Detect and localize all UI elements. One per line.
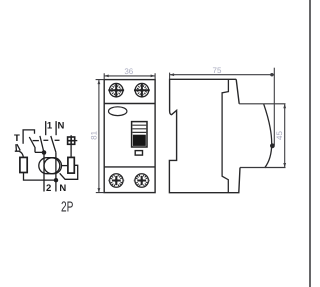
side profile outline — [169, 79, 240, 192]
trip coil top stub — [70, 135, 72, 137]
relay coil K — [68, 157, 74, 173]
svg-text:81: 81 — [90, 130, 99, 139]
node dot2 junction on N — [54, 178, 58, 182]
wire test contact to node dot1 — [35, 151, 44, 153]
screw terminal bottom-left — [108, 174, 124, 188]
svg-text:2P: 2P — [61, 199, 73, 215]
test contact fixed dash — [33, 140, 39, 142]
wire toroid to relay — [62, 165, 68, 167]
test contact blade — [29, 137, 35, 152]
svg-text:N: N — [58, 120, 65, 131]
test button bracket — [23, 130, 34, 144]
toroid core circle — [44, 158, 60, 174]
front view bottom terminal divider — [104, 166, 155, 168]
resistor R — [20, 157, 27, 172]
wire relay to trip coil — [70, 144, 72, 157]
side profile internal step line — [222, 79, 228, 192]
pole N switch blade — [51, 136, 56, 152]
dimension 75 — [170, 68, 275, 145]
wire relay right return to toroid — [60, 165, 78, 179]
svg-text:T: T — [14, 133, 20, 144]
svg-text:N: N — [59, 183, 66, 194]
screw terminal bottom-right — [134, 174, 150, 188]
svg-text:36: 36 — [124, 67, 133, 76]
trip coil right stub — [75, 140, 78, 142]
screw terminal top-right — [134, 83, 150, 97]
dimension 81 — [96, 80, 105, 193]
wire resistor to bottom bus — [24, 173, 56, 181]
arrow dot 75 right — [270, 73, 273, 76]
pole N conductor through toroid — [55, 152, 57, 191]
svg-text:45: 45 — [275, 131, 284, 140]
front view top terminal divider — [104, 103, 155, 105]
screw terminal top-left — [108, 83, 124, 97]
terminal N lead — [55, 121, 57, 135]
pole 1 fixed contact dash — [43, 139, 48, 141]
node dot1 junction — [42, 150, 47, 155]
front label ellipse — [109, 107, 127, 116]
dimension 45 — [284, 104, 286, 168]
svg-text:1: 1 — [47, 120, 53, 131]
svg-text:2: 2 — [46, 183, 51, 194]
side front-bottom edge with 45 extension — [240, 167, 286, 169]
pole N fixed contact dash — [55, 139, 60, 141]
side front-top edge with 45 extension — [239, 103, 285, 105]
front test button — [135, 151, 142, 156]
dimension 36 — [104, 73, 155, 79]
test push-button contact — [15, 144, 20, 151]
side profile front arc — [264, 104, 272, 168]
switch rocker — [132, 122, 147, 147]
depth marker dot on arc — [270, 143, 275, 148]
pole 1 switch blade — [40, 136, 44, 153]
toroid core stadium — [39, 158, 62, 174]
terminal 1 lead — [45, 121, 47, 135]
trip coil crossed box — [68, 137, 75, 144]
page border right edge — [309, 0, 311, 287]
front view outer body — [104, 80, 155, 193]
pole 1 conductor through toroid — [43, 152, 45, 191]
svg-text:75: 75 — [213, 66, 222, 75]
wire button to resistor — [19, 151, 23, 157]
